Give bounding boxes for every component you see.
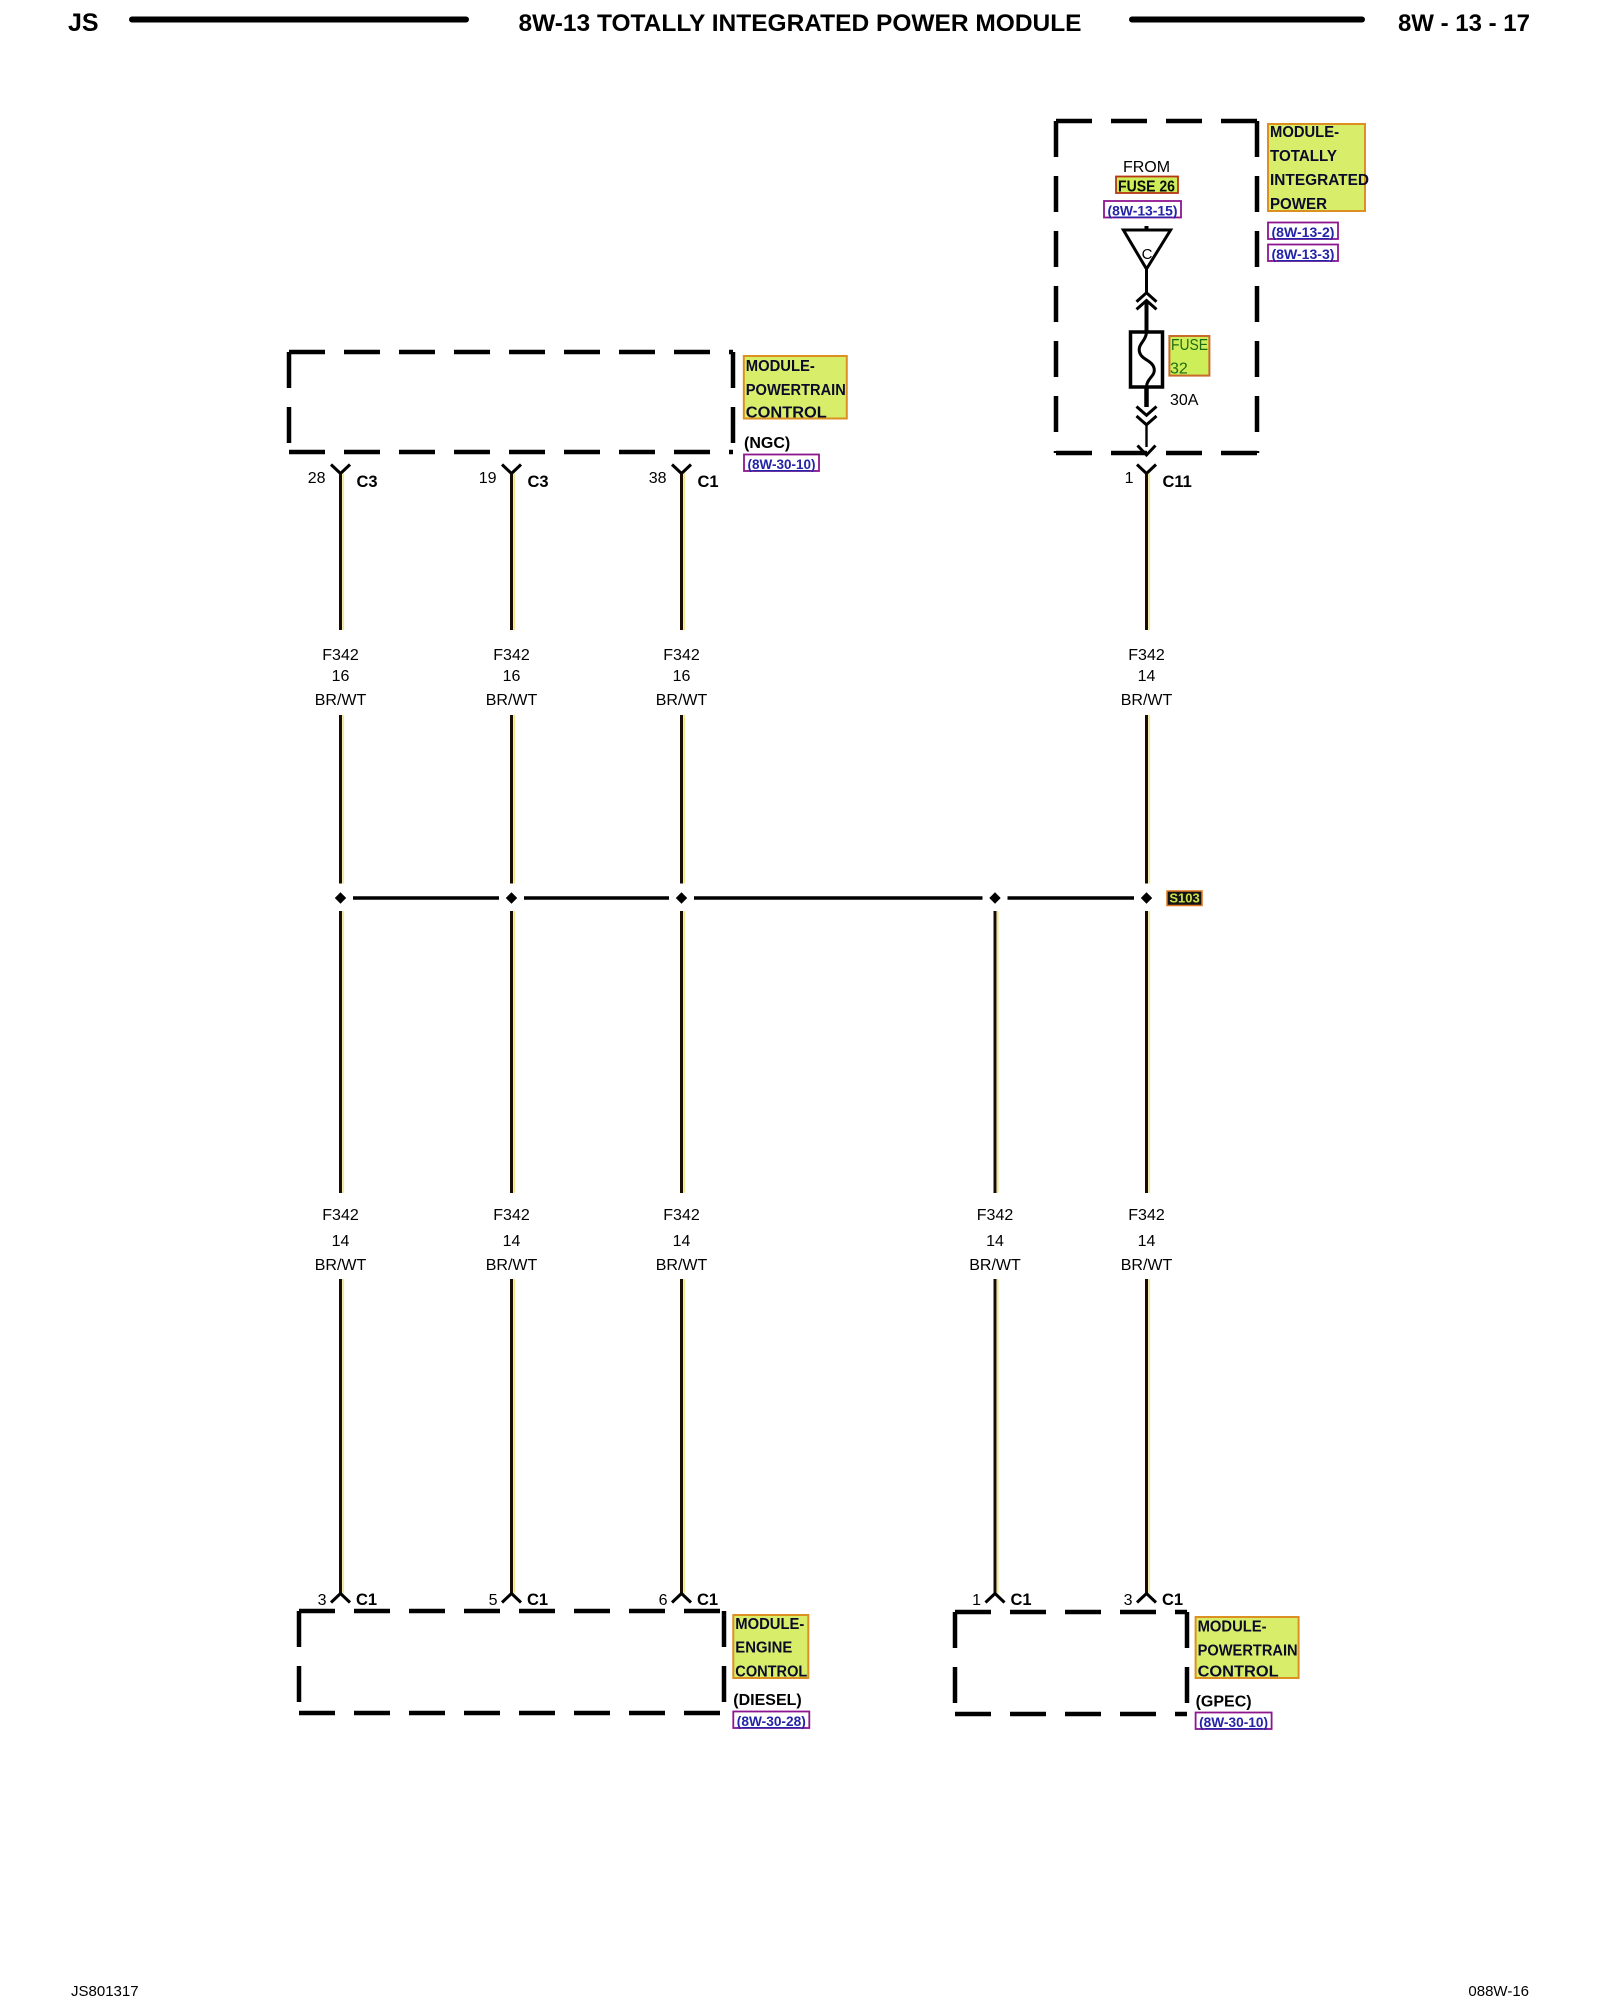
svg-text:5: 5 [489,1592,498,1609]
svg-text:(8W-30-10): (8W-30-10) [1199,1714,1268,1730]
svg-text:(GPEC): (GPEC) [1196,1694,1252,1711]
module Powertrain Control (GPEC) dashed outline [955,1610,1187,1615]
fuse 32 symbol [1131,332,1163,387]
wire fuse to down-chevrons [1144,387,1149,407]
svg-text:088W-16: 088W-16 [1468,1983,1529,2000]
module Engine Control (DIESEL) dashed outline [299,1609,724,1614]
label MODULE-POWERTRAIN CONTROL (highlighted) [744,356,847,419]
svg-text:3: 3 [1124,1592,1133,1609]
svg-text:CONTROL: CONTROL [746,405,827,422]
svg-text:INTEGRATED: INTEGRATED [1270,172,1369,189]
svg-text:FUSE 26: FUSE 26 [1118,179,1175,196]
svg-text:MODULE-: MODULE- [746,358,815,375]
svg-text:1: 1 [972,1592,981,1609]
svg-text:BR/WT: BR/WT [315,692,367,709]
svg-text:(8W-30-28): (8W-30-28) [737,1713,806,1729]
header rule right [1129,17,1365,23]
header rule left [129,17,469,23]
svg-text:BR/WT: BR/WT [315,1257,367,1274]
svg-text:14: 14 [332,1233,350,1250]
svg-text:19: 19 [479,470,497,487]
svg-text:BR/WT: BR/WT [969,1257,1021,1274]
svg-text:FROM: FROM [1123,159,1170,176]
svg-text:(8W-13-3): (8W-13-3) [1272,246,1335,262]
svg-text:POWERTRAIN: POWERTRAIN [746,382,846,399]
svg-text:JS801317: JS801317 [71,1983,139,2000]
svg-text:MODULE-: MODULE- [735,1616,804,1633]
wire from triangle to chevrons [1145,269,1148,293]
svg-text:(8W-13-2): (8W-13-2) [1272,224,1335,240]
svg-text:6: 6 [659,1592,668,1609]
svg-text:(8W-30-10): (8W-30-10) [748,456,816,472]
wire F342 BR/WT run 1 upper segment [339,474,342,631]
link 8W-30-28 [733,1712,809,1729]
svg-text:16: 16 [673,668,691,685]
module Powertrain Control (NGC) dashed outline [289,350,733,355]
wire to box edge arrow [1145,425,1147,447]
svg-text:MODULE-: MODULE- [1270,124,1339,141]
svg-text:FUSE: FUSE [1171,337,1208,354]
svg-text:C3: C3 [357,473,378,491]
svg-text:F342: F342 [493,1207,530,1224]
svg-text:TOTALLY: TOTALLY [1270,148,1337,165]
svg-text:30A: 30A [1170,392,1199,409]
svg-text:28: 28 [308,470,326,487]
connector pin 28 C3 of NGC module [331,465,350,474]
svg-text:CONTROL: CONTROL [735,1663,807,1680]
svg-text:C1: C1 [1011,1591,1032,1609]
svg-text:14: 14 [1138,668,1156,685]
svg-text:F342: F342 [322,647,359,664]
link 8W-30-10 (GPEC) [1196,1713,1272,1730]
svg-text:BR/WT: BR/WT [486,692,538,709]
label MODULE-ENGINE CONTROL (highlighted) [733,1615,808,1678]
wire run 5 label-to-splice segment [1145,715,1148,884]
connector pin 3 C1 (bottom of run 5) [1137,1594,1156,1603]
label MODULE-POWERTRAIN CONTROL GPEC (highlighted) [1196,1617,1299,1678]
connector pin 6 C1 (bottom of run 3) [672,1594,691,1603]
module Totally Integrated Power (TIPM) dashed outline [1056,119,1257,124]
label S103 (highlighted) [1167,891,1202,906]
svg-text:F342: F342 [977,1207,1014,1224]
svg-text:S103: S103 [1169,891,1199,906]
label MODULE-TOTALLY INTEGRATED POWER (highlighted) [1268,124,1365,211]
svg-text:8W - 13 - 17: 8W - 13 - 17 [1398,10,1530,37]
wire chevrons to fuse [1145,301,1149,333]
svg-text:C1: C1 [698,473,719,491]
connector pin 38 C1 of NGC module [672,465,691,474]
connector pin 1 C11 of TIPM [1137,465,1156,474]
svg-text:C: C [1142,246,1153,263]
svg-text:(8W-13-15): (8W-13-15) [1108,203,1178,219]
svg-text:14: 14 [986,1233,1004,1250]
svg-text:16: 16 [332,668,350,685]
svg-text:(NGC): (NGC) [744,435,790,452]
svg-text:14: 14 [1138,1233,1156,1250]
svg-text:F342: F342 [322,1207,359,1224]
svg-text:CONTROL: CONTROL [1198,1664,1279,1681]
connector pin 3 C1 (bottom of run 1) [331,1594,350,1603]
svg-text:BR/WT: BR/WT [656,692,708,709]
svg-text:C1: C1 [697,1591,718,1609]
svg-text:14: 14 [673,1233,691,1250]
svg-text:ENGINE: ENGINE [735,1640,792,1657]
link 8W-13-3 [1268,245,1338,262]
wire run 2 lower segment [510,1279,513,1594]
svg-text:POWERTRAIN: POWERTRAIN [1198,1643,1298,1660]
wire run 1 lower segment [339,1279,342,1594]
wire run 2 label-to-splice segment [510,715,513,884]
svg-text:BR/WT: BR/WT [486,1257,538,1274]
wire F342 BR/WT run 2 upper segment [510,474,513,631]
splice junction on run 1 [335,892,346,903]
wire run 1 splice-to-label segment [339,911,342,1193]
wire F342 BR/WT run 5 upper segment [1145,474,1148,631]
connector pin 19 C3 of NGC module [502,465,521,474]
svg-text:C1: C1 [356,1591,377,1609]
double chevron down (in-line connector) [1137,407,1157,416]
connector pin 5 C1 (bottom of run 2) [502,1594,521,1603]
wire run 5 splice-to-label segment [1145,911,1148,1193]
wire stub above triangle [1145,226,1149,231]
splice junction on run 5 [1141,892,1152,903]
wire run 4 splice-to-label segment [994,911,997,1193]
connector symbol C (triangle) [1123,230,1170,269]
svg-text:F342: F342 [663,647,700,664]
wire run 4 lower segment [994,1279,997,1594]
svg-text:BR/WT: BR/WT [1121,1257,1173,1274]
svg-text:F342: F342 [1128,647,1165,664]
splice S103 bus wire [353,896,499,900]
wire run 3 lower segment [680,1279,683,1594]
wire run 3 label-to-splice segment [680,715,683,884]
splice junction on run 4 [989,892,1000,903]
svg-text:(DIESEL): (DIESEL) [733,1692,801,1709]
svg-text:C1: C1 [527,1591,548,1609]
svg-text:JS: JS [68,9,99,37]
connector pin 1 C1 (bottom of run 4) [986,1594,1005,1603]
wire run 2 splice-to-label segment [510,911,513,1193]
svg-text:C1: C1 [1162,1591,1183,1609]
svg-text:BR/WT: BR/WT [656,1257,708,1274]
wire run 1 label-to-splice segment [339,715,342,884]
wire run 5 lower segment [1145,1279,1148,1594]
label FUSE 32 (highlighted) [1169,336,1209,376]
splice junction on run 3 [676,892,687,903]
link 8W-13-15 [1104,201,1181,218]
svg-text:32: 32 [1170,361,1188,378]
svg-text:F342: F342 [1128,1207,1165,1224]
svg-text:38: 38 [649,470,667,487]
double chevron up (in-line connector) [1137,293,1157,302]
svg-text:3: 3 [318,1592,327,1609]
svg-text:14: 14 [503,1233,521,1250]
arrowhead at box edge [1138,446,1156,456]
svg-text:1: 1 [1125,470,1134,487]
svg-text:BR/WT: BR/WT [1121,692,1173,709]
svg-text:POWER: POWER [1270,196,1327,213]
splice junction on run 2 [506,892,517,903]
svg-text:8W-13 TOTALLY INTEGRATED POWER: 8W-13 TOTALLY INTEGRATED POWER MODULE [518,10,1081,37]
svg-text:C3: C3 [528,473,549,491]
link 8W-13-2 [1268,223,1338,240]
svg-text:F342: F342 [493,647,530,664]
svg-text:16: 16 [503,668,521,685]
svg-text:C11: C11 [1163,473,1192,491]
svg-text:MODULE-: MODULE- [1198,1619,1267,1636]
wire F342 BR/WT run 3 upper segment [680,474,683,631]
link 8W-30-10 [744,455,819,472]
wire run 3 splice-to-label segment [680,911,683,1193]
label FUSE 26 (highlighted) [1116,177,1178,194]
svg-text:F342: F342 [663,1207,700,1224]
